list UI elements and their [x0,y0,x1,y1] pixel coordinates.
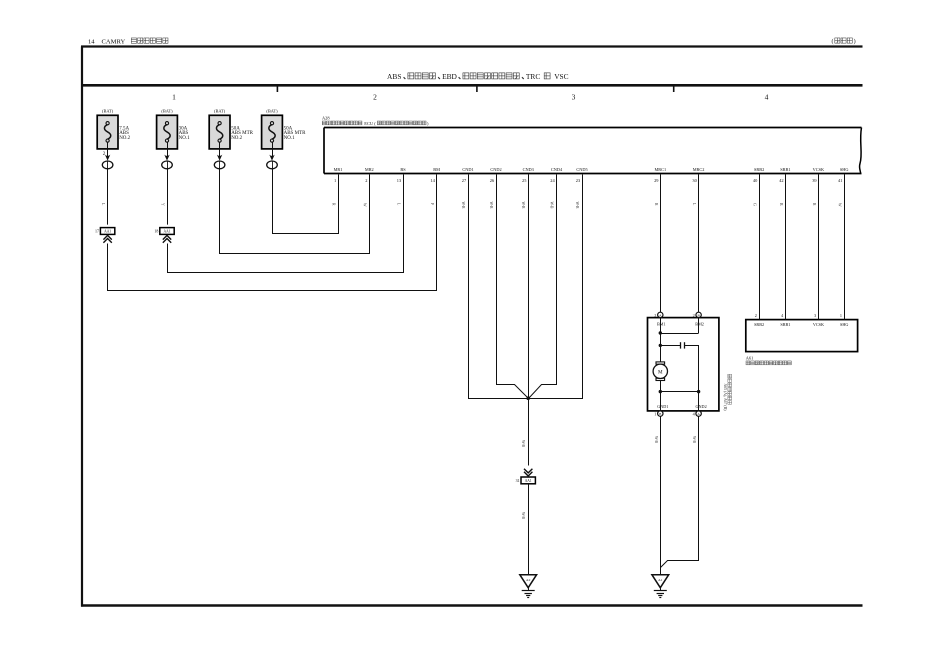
svg-text:W-B: W-B [575,202,579,210]
svg-text:BM2: BM2 [695,322,704,327]
svg-text:W: W [363,203,367,207]
svg-text:GND1: GND1 [657,404,668,409]
svg-text:CND4: CND4 [551,167,563,172]
svg-text:W-B: W-B [692,436,696,444]
svg-text:W-B: W-B [549,202,553,210]
svg-text:Y: Y [160,203,164,206]
svg-text:ECU: ECU [364,121,374,126]
svg-text:A61: A61 [746,356,754,361]
svg-text:B: B [779,203,783,206]
svg-text:A1: A1 [658,578,663,582]
svg-text:1: 1 [334,178,336,183]
svg-text:BM1: BM1 [657,322,666,327]
svg-text:SHG: SHG [840,167,849,172]
svg-text:W-B: W-B [489,202,493,210]
svg-text:CND5: CND5 [576,167,587,172]
svg-text:3: 3 [814,313,816,318]
svg-text:NO.2: NO.2 [119,136,130,141]
svg-text:2: 2 [693,313,695,318]
svg-text:P: P [430,203,434,205]
svg-text:EBD: EBD [442,72,457,81]
svg-text:42: 42 [779,178,783,183]
svg-text:MR2: MR2 [365,167,374,172]
svg-text:A28: A28 [322,115,330,120]
svg-text:AA1: AA1 [104,230,111,234]
svg-text:GND2: GND2 [696,404,707,409]
svg-text:CND3: CND3 [523,167,534,172]
svg-text:CND2: CND2 [490,167,501,172]
svg-text:VCSK: VCSK [813,167,825,172]
svg-text:MRC2: MRC2 [693,167,705,172]
svg-text:2: 2 [373,92,377,101]
svg-text:17: 17 [95,229,99,234]
svg-text:R: R [331,203,335,206]
svg-text:A2: A2 [526,578,531,582]
svg-text:(: ( [832,38,834,45]
svg-text:W-B: W-B [521,440,525,448]
svg-text:SRB2: SRB2 [754,322,764,327]
svg-text:1: 1 [840,313,842,318]
svg-text:SRB1: SRB1 [780,322,790,327]
svg-text:R: R [812,203,816,206]
svg-text:CND1: CND1 [462,167,473,172]
svg-text:BS: BS [400,167,406,172]
svg-text:W: W [838,203,842,207]
svg-text:2: 2 [365,178,367,183]
svg-text:1: 1 [172,92,176,101]
svg-text:W-B: W-B [654,436,658,444]
svg-text:SHG: SHG [840,322,848,327]
svg-text:MR1: MR1 [334,167,343,172]
svg-text:NO.1: NO.1 [179,136,190,141]
svg-text:AA1: AA1 [525,479,532,483]
svg-text:VSC: VSC [554,72,568,81]
svg-text:4: 4 [765,92,769,101]
svg-text:M: M [658,369,663,375]
svg-text:1: 1 [654,412,656,417]
svg-text:SRB2: SRB2 [754,167,764,172]
svg-text:3: 3 [572,92,576,101]
svg-text:W-B: W-B [521,512,525,520]
svg-text:NO.1: NO.1 [284,136,295,141]
svg-text:(BAT): (BAT) [214,108,226,113]
svg-text:MRC1: MRC1 [654,167,666,172]
svg-text:18: 18 [154,229,158,234]
svg-text:(BAT): (BAT) [102,108,114,113]
svg-text:14: 14 [88,39,95,46]
svg-text:VCSK: VCSK [813,322,824,327]
svg-text:): ) [854,38,856,45]
svg-text:ABS: ABS [387,72,401,81]
svg-text:(BAT): (BAT) [161,108,173,113]
svg-text:(BAT): (BAT) [266,108,278,113]
svg-text:BM: BM [433,167,440,172]
svg-text:R: R [654,203,658,206]
svg-text:2: 2 [755,313,757,318]
svg-text:SRB1: SRB1 [780,167,790,172]
svg-text:W-B: W-B [521,202,525,210]
svg-text:G: G [753,203,757,206]
svg-text:TRC: TRC [526,72,540,81]
svg-text:31: 31 [516,478,520,483]
svg-text:CAMRY: CAMRY [102,39,126,46]
svg-text:41: 41 [838,178,842,183]
svg-text:NO.2: NO.2 [231,136,242,141]
svg-text:W-B: W-B [461,202,465,210]
svg-text:AA1: AA1 [164,230,171,234]
svg-text:2: 2 [654,313,656,318]
